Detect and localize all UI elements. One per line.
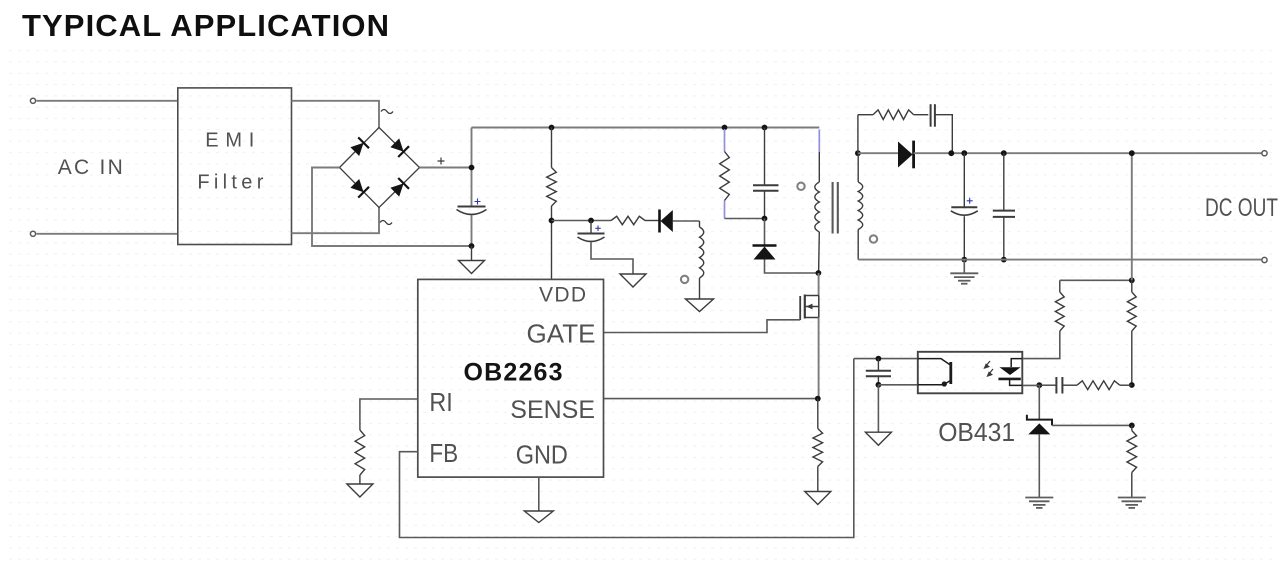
optocoupler U2 light arrows (985, 361, 994, 376)
resistor R7 (LED bias) (1055, 280, 1064, 331)
pin label GATE (527, 319, 596, 349)
polarity dot primary (797, 183, 804, 190)
resistor R4 (current sense) (813, 399, 823, 491)
wire R3 to C4 bottom (725, 218, 765, 220)
wire FB net (400, 359, 854, 538)
transformer T1 primary winding (815, 130, 820, 274)
bridge diode D3 (bottom-left) (350, 179, 369, 198)
diode D7 (output rectifier) (898, 141, 914, 169)
optocoupler U2 box (918, 352, 1023, 394)
wire RI from IC (360, 399, 418, 430)
plus mark C1 (475, 199, 481, 205)
capacitor C9 (compensation) (1039, 377, 1062, 394)
node bridge output (469, 165, 475, 171)
DC output terminal top (1262, 151, 1267, 156)
wire AC top to EMI filter (37, 100, 178, 102)
optocoupler U2 phototransistor (918, 359, 951, 387)
wire secondary bottom rail (858, 259, 1262, 261)
resistor R9 (compensation) (1062, 381, 1131, 390)
svg-text:VDD: VDD (539, 284, 586, 307)
node output rail tap (1129, 150, 1135, 156)
node sense (815, 396, 821, 402)
node C7 bottom (1001, 257, 1007, 263)
svg-text:OB431: OB431 (938, 417, 1015, 447)
svg-text:DC OUT: DC OUT (1205, 194, 1278, 222)
node ref divider (1129, 423, 1135, 429)
wire OB431 anode (1038, 434, 1040, 497)
node C2 top (588, 218, 594, 224)
wire opto collector (854, 358, 918, 360)
plus mark C6 (967, 198, 973, 204)
capacitor C4 (snubber) (753, 128, 779, 219)
wire DC bus vertical (471, 128, 473, 247)
wire C6 ground stem (963, 260, 965, 273)
wire bridge plus output (420, 167, 472, 169)
capacitor C7 output (993, 153, 1015, 259)
svg-text:SENSE: SENSE (510, 396, 595, 424)
ground E3 below R10 (1118, 498, 1146, 508)
node secondary top (855, 150, 861, 156)
resistor R1 (startup) (547, 128, 557, 280)
bridge diode D2 (top-right) (390, 138, 409, 157)
optocoupler U2 LED (998, 359, 1022, 386)
wire secondary top rail (914, 152, 1262, 154)
node LED cathode (1036, 382, 1042, 388)
capacitor C5 (secondary snubber) (931, 104, 953, 153)
label OB431 (938, 417, 1015, 447)
resistor R6 (secondary snubber) (858, 110, 928, 153)
node snubber rejoin (948, 150, 954, 156)
polarity dot secondary (870, 235, 877, 242)
capacitor C2 VDD electrolytic (578, 221, 605, 242)
plus mark C2 (595, 226, 600, 232)
wire SENSE from IC (604, 398, 818, 400)
op-amp U1 OB2263 controller box (418, 279, 604, 477)
ground G4 below R4 (805, 492, 831, 505)
AC input terminal top (30, 98, 35, 103)
svg-text:FB: FB (429, 438, 458, 468)
node snubber RC bottom (762, 216, 768, 222)
ground E1 below C6 (950, 273, 978, 283)
wire output sense tap (1131, 153, 1133, 280)
wire OB431 ref (1052, 424, 1132, 426)
wire GND pin (538, 477, 540, 510)
svg-text:GATE: GATE (527, 319, 596, 349)
wire EMI top output to bridge (292, 101, 380, 128)
transistor Q1 MOSFET (800, 295, 819, 321)
node rail at snubber R3 (722, 125, 728, 131)
wire top HV rail (472, 127, 820, 129)
resistor R8 (divider upper) (1127, 280, 1136, 385)
ground G6 below R5 (347, 484, 373, 497)
bridge rectifier frame (340, 128, 420, 208)
wire gate from IC (604, 320, 801, 333)
ground E2 below OB431 (1025, 498, 1053, 508)
node rail at snubber C4 (762, 125, 768, 131)
wire AC bottom to EMI filter (37, 233, 178, 235)
transformer T1 auxiliary winding (700, 221, 704, 299)
wire LED anode to divider (1022, 331, 1060, 359)
node opto emitter cap (876, 382, 882, 388)
AC input terminal bottom (30, 231, 35, 236)
node divider mid (1129, 382, 1135, 388)
resistor R3 (snubber) (720, 129, 730, 219)
resistor R10 (divider lower) (1127, 425, 1137, 497)
label OB2263 (464, 359, 563, 387)
pin label GND (516, 440, 568, 470)
node bulk cap bottom (469, 243, 475, 249)
ground G5 below GND pin (524, 511, 553, 523)
wire EMI bottom output to bridge (292, 208, 380, 234)
node VDD (549, 218, 555, 224)
ground G3 below aux winding (686, 299, 714, 312)
wire drain (818, 273, 820, 296)
label DC OUT (1205, 194, 1278, 222)
resistor R2 (aux) (611, 216, 660, 224)
ground G2 below C2 (620, 274, 646, 287)
node drain snubber join (816, 270, 822, 276)
resistor R5 (RI) (355, 430, 365, 484)
shunt regulator U3 OB431 (1027, 415, 1052, 435)
node C7 top (1001, 150, 1007, 156)
ground G1 below C1 (459, 246, 485, 274)
svg-text:TYPICAL APPLICATION: TYPICAL APPLICATION (22, 8, 389, 43)
wire OB431 cathode (1038, 385, 1040, 419)
node rail at R1 (549, 125, 555, 131)
diode D5 (aux rectifier) (660, 210, 700, 233)
node C6 bottom (961, 257, 967, 263)
svg-text:RI: RI (429, 387, 452, 417)
EMI filter block (178, 88, 292, 245)
wire secondary top rail left (858, 152, 898, 154)
pin label FB (429, 438, 458, 468)
wire divider top node (1060, 279, 1132, 281)
pin label VDD (539, 284, 586, 307)
capacitor C1 bulk electrolytic (457, 207, 487, 215)
AC tilde mark top (381, 110, 393, 114)
DC output terminal bottom (1262, 257, 1267, 262)
wire opto emitter (878, 384, 917, 386)
node divider top (1129, 277, 1135, 283)
label AC IN (58, 156, 123, 179)
plus polarity mark at bridge output (438, 158, 445, 165)
transformer T1 core (833, 182, 838, 234)
capacitor C6 output electrolytic (951, 153, 978, 259)
pin label SENSE (510, 396, 595, 424)
pin label RI (429, 387, 452, 417)
AC tilde mark bottom (380, 221, 392, 225)
diode D6 (snubber clamp) (753, 219, 819, 274)
svg-text:OB2263: OB2263 (464, 359, 563, 387)
node opto collector cap (876, 356, 882, 362)
wire VDD node to aux network (552, 220, 612, 222)
title TYPICAL APPLICATION (22, 8, 389, 43)
bridge diode D1 (top-left) (350, 137, 369, 156)
wire C8 to ground (877, 385, 879, 432)
transformer T1 secondary winding (858, 153, 863, 259)
wire LED cathode (1022, 384, 1039, 386)
wire C2 to ground (591, 243, 633, 274)
capacitor C8 (opto filter) (866, 359, 891, 385)
wire source to sense (818, 318, 820, 399)
ground G7 below opto (865, 432, 891, 445)
wire bridge minus output (312, 168, 472, 247)
svg-text:GND: GND (516, 440, 568, 470)
node C6 top (961, 150, 967, 156)
bridge diode D4 (bottom-right) (390, 178, 409, 197)
polarity dot aux winding (681, 276, 688, 283)
